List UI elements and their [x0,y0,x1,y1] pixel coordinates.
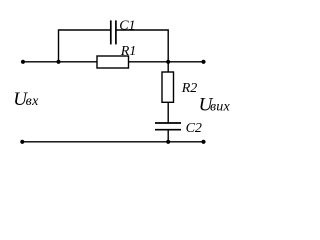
svg-text:C2: C2 [186,121,202,136]
resistor R1 [97,56,129,68]
node junction bottom (C2 tap) [166,140,170,144]
capacitor C1 [111,20,116,44]
node output bottom terminal [201,140,205,144]
svg-text:R2: R2 [181,81,198,96]
node input top terminal [21,60,25,64]
svg-text:R1: R1 [120,44,137,59]
wire C2 to bottom rail [167,130,169,142]
wire right branch upper (junction to R2) [167,62,169,73]
resistor R2 [162,72,174,102]
capacitor C2 [155,123,181,130]
svg-text:вих: вих [210,100,230,115]
node junction right (R2 tap) [166,60,170,64]
svg-text:вх: вх [26,94,39,109]
wire R2 to C2 [167,101,169,123]
node input bottom terminal [20,140,24,144]
wire top branch with risers (C1 parallel loop) [59,30,169,62]
node output top terminal [201,60,205,64]
wire main horizontal (input node to output node) [23,61,204,63]
node junction left (C1/R1 tap) [56,60,60,64]
svg-text:C1: C1 [119,19,135,34]
wire bottom horizontal (common rail) [22,141,203,143]
